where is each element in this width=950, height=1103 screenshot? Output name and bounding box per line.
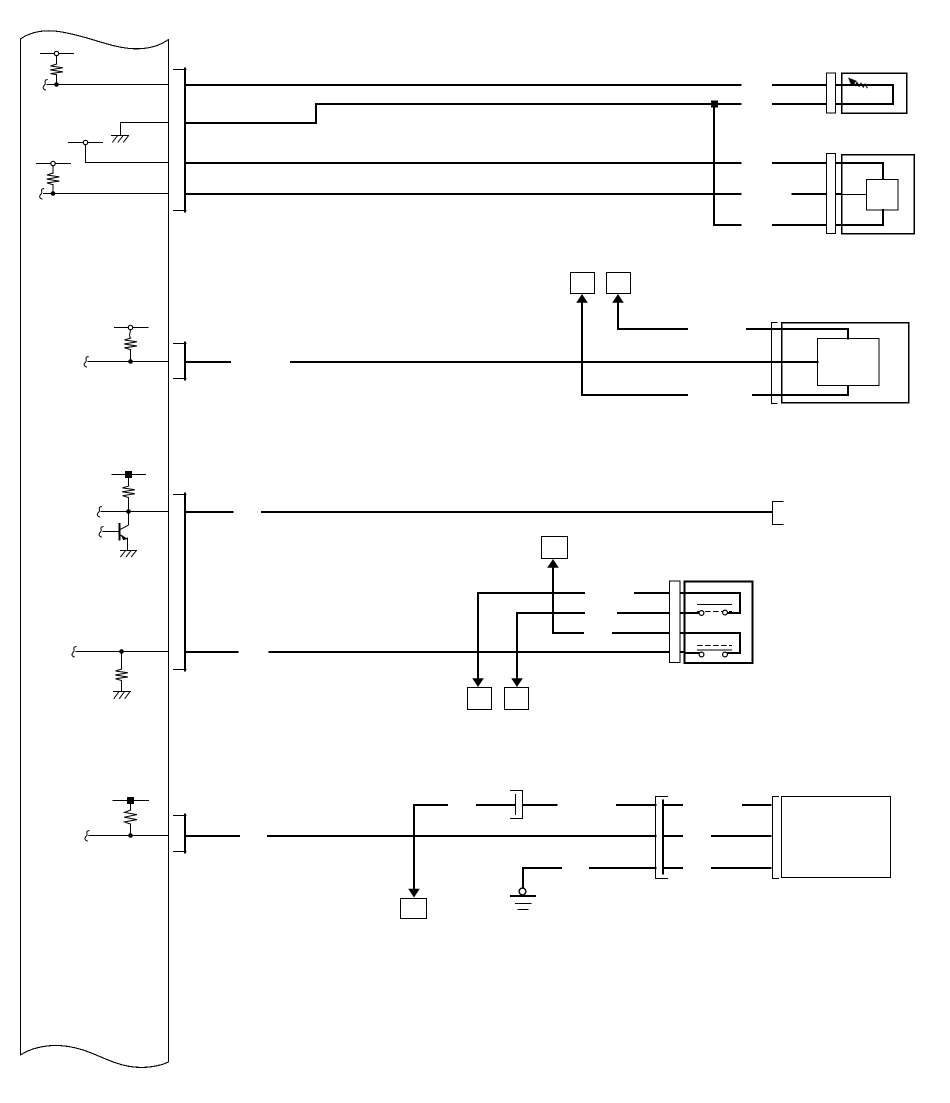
wire break symbol <box>40 189 44 199</box>
wire pin2 with step up <box>186 104 842 123</box>
off-page reference box S4 <box>468 688 492 710</box>
wire arrow drop to S5 <box>517 613 584 680</box>
relay K1 switch 1 contact circles <box>699 611 704 616</box>
resistor R6 <box>124 810 137 824</box>
circuit 5: lead wire <box>129 330 132 339</box>
circuit 8: rail line through square <box>113 800 149 802</box>
component M3 inner element box <box>818 339 880 386</box>
transistor Q1 emitter lead with arrow <box>120 535 127 539</box>
circuit 1: lead to junction <box>56 75 58 85</box>
component M2 (actuator) connector bar <box>827 154 836 234</box>
module U1 bottom torn wavy edge <box>21 1045 169 1067</box>
junction dot node A <box>54 82 59 87</box>
circuit 2: ground lead corner <box>120 123 122 136</box>
component M4 (rear unit) connector bracket <box>773 797 779 879</box>
junction square node G <box>711 101 718 108</box>
wire pin8 internal <box>89 835 169 837</box>
circuit 3: rail line through circle <box>69 142 103 144</box>
relay K1 connector bar <box>670 581 681 663</box>
connector terminator on wire pin6 <box>773 502 784 525</box>
junction dot node D <box>126 509 131 514</box>
relay K1 switch 2 actuator bar <box>698 649 732 651</box>
wire break symbol <box>97 507 101 517</box>
resistor R4 <box>122 486 135 498</box>
arrowhead down into box S5 <box>511 678 523 687</box>
wire relay stub row 633 <box>613 632 685 634</box>
connector bracket J1 (pins 1-4) on module edge <box>174 70 187 211</box>
wire pin6 internal <box>101 511 168 513</box>
component M4 outer box <box>782 797 891 878</box>
transistor Q1 base bar <box>119 524 121 540</box>
relay K1 switch 1 pin lines <box>685 612 741 614</box>
component M2 middle rail <box>842 194 867 196</box>
wire from node G down and right <box>714 104 842 225</box>
wire pin5 internal <box>88 361 169 363</box>
component M2 outer box <box>842 155 915 234</box>
off-page reference box S3 <box>542 537 568 559</box>
component M3 outer box <box>782 323 909 403</box>
component M2 inner element box <box>867 180 899 211</box>
wire pin3 internal <box>86 162 169 164</box>
resistor R2 <box>47 173 60 185</box>
component M2 bottom rail <box>842 210 884 225</box>
ground G2 <box>121 550 137 552</box>
inline connector CN2 bracket <box>656 797 668 879</box>
connector bracket J4 (pin 8) on module edge <box>174 816 187 852</box>
circuit 1: lead wire <box>56 56 58 65</box>
wire pin7 to relay K1 <box>186 651 685 653</box>
wire break symbol <box>85 831 89 841</box>
component M1 arrow head <box>848 78 857 86</box>
component M1 heater squiggle <box>853 82 867 88</box>
junction dot node F <box>128 833 133 838</box>
arrowhead down into box S6 <box>408 889 420 898</box>
wire arrow riser from S2 <box>618 302 687 329</box>
wire stub to motor M3 top pin <box>747 328 782 330</box>
wire pin6 <box>186 511 772 513</box>
component M3 (motor) connector bracket <box>772 323 778 404</box>
circuit 3: lead corner <box>85 145 87 163</box>
wire pin2 internal <box>121 122 169 124</box>
component M3 bottom rail <box>782 386 849 395</box>
inline connector CN1 female bracket <box>511 791 523 819</box>
transistor Q1 collector lead <box>120 512 128 530</box>
wire stub to motor M3 bottom pin <box>753 394 782 396</box>
wire pin1 internal <box>47 84 169 86</box>
relay K1 switch 1 dashed link <box>698 611 732 613</box>
circuit 5: terminal circle <box>128 325 132 329</box>
transistor Q1 emitter to ground <box>127 538 129 550</box>
ground G1 <box>112 135 129 137</box>
circuit 5: rail line through circle <box>115 327 149 329</box>
junction dot node C <box>128 359 133 364</box>
wire pin4 <box>186 193 842 195</box>
wire arrow riser from S3 <box>553 567 583 633</box>
transistor Q1 base lead <box>103 531 120 533</box>
circuit 4: terminal circle <box>51 161 55 165</box>
circuit 4: lead to junction <box>52 185 54 194</box>
component M3 top rail <box>782 329 849 339</box>
circuit 8: power terminal square <box>127 797 134 804</box>
wire break symbol <box>43 80 47 90</box>
relay K1 switch 1 top rail <box>685 593 741 613</box>
wire relay stub row 613 <box>618 612 685 614</box>
component M3 middle rail from pin5 wire <box>772 361 818 363</box>
resistor R3 <box>124 338 137 350</box>
wire pin5 <box>186 361 772 363</box>
circuit 6: power terminal square <box>125 471 132 478</box>
junction dot node E <box>119 649 124 654</box>
relay K1 switch 2 pin lines <box>685 652 741 654</box>
relay K1 switch 2 dashed link <box>698 645 732 647</box>
circuit 6: rail line through square <box>112 474 146 476</box>
wire break symbol <box>99 527 103 537</box>
ground G3 <box>114 691 131 693</box>
arrowhead up into box S3 <box>547 559 559 568</box>
circuit 4: rail line through circle <box>37 163 71 165</box>
chassis ground G4 bolt circle <box>519 888 526 895</box>
arrowhead up into box S2 <box>612 294 624 303</box>
arrowhead up into box S1 <box>576 294 588 303</box>
component M1 outer box <box>842 73 907 113</box>
wire ground row of bottom section <box>523 868 771 888</box>
wire pin1 to resistor unit M1 <box>186 84 842 86</box>
wire break symbol <box>84 357 88 367</box>
module U1 top torn wavy edge <box>21 31 169 49</box>
circuit 3: terminal circle <box>83 140 87 144</box>
relay K1 switch 1 actuator bar <box>698 604 732 606</box>
circuit 4: lead wire <box>52 166 54 174</box>
chassis ground G4 bars <box>511 895 535 897</box>
circuit 7: lead to ground <box>121 681 123 692</box>
off-page reference box S2 <box>607 273 631 294</box>
wire arrow drop to S4 <box>478 593 584 680</box>
wire pin4 internal <box>44 193 169 195</box>
inline connector CN2 pin bar <box>662 801 664 874</box>
resistor R1 <box>50 64 63 75</box>
junction dot node B <box>51 191 56 196</box>
circuit 1: terminal circle <box>54 51 58 55</box>
connector bracket J3 (pins 6-7) on module edge <box>174 495 187 670</box>
wire top row of bottom section <box>414 805 771 890</box>
module U1 body right edge <box>168 40 170 1063</box>
circuit 6: lead wire <box>128 478 130 486</box>
wire pin3 <box>186 162 842 164</box>
module U1 body left edge <box>20 39 22 1055</box>
relay K1 switch 2 top rail <box>685 633 741 653</box>
circuit 1: rail line through circle <box>41 53 74 55</box>
wire pin8 main bottom <box>186 835 771 837</box>
wire break symbol <box>72 647 76 657</box>
wire relay stub row 593 <box>635 592 685 594</box>
arrowhead down into box S4 <box>472 678 484 687</box>
inline connector CN1 male pin <box>515 795 517 815</box>
circuit 7: lead to resistor <box>121 652 123 670</box>
wire arrow riser from S1 <box>582 302 687 395</box>
off-page reference box S6 <box>401 899 427 919</box>
component M2 top rail <box>842 163 884 179</box>
connector bracket J2 (pin 5) on module edge <box>174 344 187 379</box>
circuit 8: lead to junction <box>130 824 132 836</box>
circuit 8: lead wire <box>130 805 132 811</box>
resistor R5 <box>115 669 128 681</box>
relay K1 switch 2 contact circles <box>699 652 704 657</box>
circuit 5: lead to junction <box>130 350 132 362</box>
wire pin7 internal <box>76 651 169 653</box>
off-page reference box S1 <box>571 273 595 294</box>
component M1 internal U loop <box>842 85 894 104</box>
relay K1 outer box <box>685 582 753 664</box>
component M1 (resistor unit) connector bar <box>827 73 836 113</box>
off-page reference box S5 <box>505 688 529 710</box>
circuit 6: lead to junction <box>128 498 130 512</box>
